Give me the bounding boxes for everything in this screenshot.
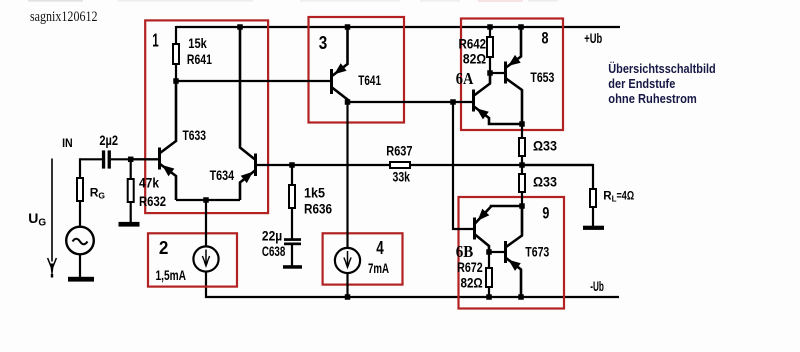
label T641: [358, 72, 381, 88]
label T673: [525, 244, 549, 260]
wire R642 node to T653 base: [490, 72, 504, 74]
label 47k: [139, 175, 159, 191]
label 6A: [456, 69, 474, 88]
node R642 bottom junction: [487, 70, 493, 76]
ground below R632: [119, 222, 140, 227]
node T641 collector junction: [345, 99, 351, 105]
node 6A base tee: [450, 99, 456, 105]
svg-text:RL=4Ω: RL=4Ω: [603, 191, 634, 204]
capacitor 2u2: [102, 150, 111, 168]
resistor O33 upper: [518, 124, 526, 166]
svg-text:3: 3: [319, 32, 328, 53]
label 1,5mA: [156, 267, 187, 283]
current source CS2 1.5mA: [193, 246, 218, 271]
svg-text:2µ2: 2µ2: [99, 132, 118, 148]
red box 8: [461, 19, 563, 131]
svg-text:T634: T634: [210, 167, 235, 183]
wire cap to T633 base: [111, 158, 158, 160]
red box 1: [145, 20, 268, 213]
wire T641 collector to 6A base: [348, 101, 473, 103]
label UG: [28, 210, 46, 229]
label 82ohm lower: [461, 274, 483, 290]
node T641 emitter at rail: [345, 24, 351, 30]
resistor RL: [589, 188, 597, 226]
label R641: [187, 51, 212, 67]
svg-text:Ω33: Ω33: [533, 174, 557, 190]
svg-text:der Endstufe: der Endstufe: [608, 77, 675, 91]
node 6B emitter junction: [519, 203, 525, 209]
resistor R637 33k: [389, 161, 411, 169]
svg-text:IN: IN: [62, 136, 73, 150]
svg-text:R642: R642: [459, 36, 487, 52]
svg-text:R641: R641: [187, 51, 212, 67]
label R642: [459, 36, 487, 52]
arrow UG voltage: [48, 159, 57, 278]
label O33 lower: [533, 174, 557, 190]
current source CS4 7mA: [335, 248, 360, 273]
node R672 at rail: [486, 294, 492, 300]
svg-text:-Ub: -Ub: [590, 278, 604, 294]
label box number 8: [542, 28, 549, 47]
label 82ohm upper: [463, 51, 486, 67]
capacitor C638: [284, 238, 301, 266]
resistor O33 lower: [518, 164, 526, 232]
svg-text:R672: R672: [457, 259, 483, 275]
svg-text:33k: 33k: [393, 169, 411, 185]
label 33k: [393, 169, 411, 185]
label title line 3: [608, 92, 697, 106]
svg-text:6A: 6A: [456, 69, 474, 88]
svg-text:sagnix120612: sagnix120612: [30, 9, 98, 25]
svg-text:UG: UG: [28, 210, 46, 229]
transistor 6A: [472, 73, 522, 124]
label 6B: [456, 242, 474, 261]
wire +Ub rail: [176, 26, 620, 28]
svg-text:Ω33: Ω33: [533, 138, 557, 154]
label sagnix120612: [30, 9, 98, 25]
svg-text:7mA: 7mA: [368, 260, 389, 276]
label 7mA: [368, 260, 389, 276]
svg-text:T633: T633: [183, 127, 207, 143]
ground below source: [68, 277, 94, 282]
label title line 2: [608, 77, 675, 91]
svg-text:2: 2: [159, 237, 169, 258]
svg-text:9: 9: [542, 204, 549, 223]
node T634 collector at rail: [237, 24, 243, 30]
label 15k: [188, 35, 207, 51]
label IN: [62, 136, 73, 150]
label T633: [183, 127, 207, 143]
svg-text:1k5: 1k5: [304, 185, 325, 201]
label RL=4ohm: [603, 191, 634, 204]
resistor R672 82ohm: [485, 252, 493, 297]
svg-text:C638: C638: [262, 243, 286, 259]
svg-text:15k: 15k: [188, 35, 207, 51]
wire R641 to T641 base: [176, 80, 331, 82]
label -Ub: [590, 278, 604, 294]
svg-text:RG: RG: [90, 186, 106, 201]
node emitter junction: [203, 197, 209, 203]
node output junction: [519, 162, 525, 168]
decorative faint top remnants: [28, 0, 558, 2]
node T653 emitter at rail: [518, 24, 524, 30]
label R637: [386, 143, 412, 159]
transistor T634: [240, 26, 257, 200]
svg-text:R637: R637: [386, 143, 412, 159]
label 22u: [262, 228, 282, 244]
label box number 9: [542, 204, 549, 223]
transistor T641: [330, 26, 348, 102]
label O33 upper: [533, 138, 557, 154]
node R636 top: [289, 162, 295, 168]
svg-text:Übersichtsschaltbild: Übersichtsschaltbild: [608, 61, 715, 76]
wire feedback line right: [411, 164, 593, 166]
wire -Ub rail: [206, 272, 619, 297]
wire CS4 to rail: [346, 273, 348, 297]
red box 3: [309, 17, 405, 123]
label R632: [139, 193, 166, 209]
label R672: [457, 259, 483, 275]
svg-text:T673: T673: [525, 244, 549, 260]
node 6B collector junction: [486, 249, 492, 255]
node box8 output junction: [519, 121, 525, 127]
ac source UG: [66, 227, 94, 255]
wire tail to CS2: [205, 200, 207, 247]
wire IN input: [80, 158, 102, 160]
svg-text:1: 1: [152, 29, 159, 50]
transistor T633: [158, 80, 176, 200]
transistor T653: [504, 26, 522, 124]
label box number 4: [376, 237, 384, 258]
svg-text:22µ: 22µ: [262, 228, 282, 244]
resistor RG: [76, 158, 84, 227]
svg-text:4: 4: [376, 237, 384, 258]
svg-text:82Ω: 82Ω: [463, 51, 486, 67]
wire diff pair emitters: [176, 199, 240, 201]
node R642 at rail: [487, 24, 493, 30]
ground below RL: [583, 226, 604, 230]
svg-text:T653: T653: [530, 69, 554, 85]
label box number 3: [319, 32, 328, 53]
wire tee down to 6B base: [453, 102, 473, 229]
resistor R642 82ohm: [486, 26, 494, 73]
label 1k5: [304, 185, 325, 201]
wire feedback line left: [257, 164, 389, 166]
wire T633 base: [131, 158, 158, 160]
svg-text:R636: R636: [304, 201, 332, 217]
svg-text:47k: 47k: [139, 175, 159, 191]
label +Ub: [584, 30, 602, 46]
red box 4: [323, 233, 403, 284]
node CS4 at rail: [345, 294, 351, 300]
wire output to RL: [522, 165, 593, 189]
svg-text:R632: R632: [139, 193, 166, 209]
label 2u2: [99, 132, 118, 148]
wire source to ground: [79, 254, 81, 277]
svg-text:8: 8: [542, 28, 549, 47]
label C638: [262, 243, 286, 259]
resistor R636 1k5: [288, 165, 296, 240]
svg-text:+Ub: +Ub: [584, 30, 602, 46]
resistor R641 15k: [172, 26, 180, 81]
label T653: [530, 69, 554, 85]
wire collector down to CS4: [346, 102, 348, 248]
red box 2: [148, 233, 237, 286]
node input junction: [128, 157, 134, 163]
node T673 emitter at rail: [518, 294, 524, 300]
transistor 6B: [473, 206, 522, 252]
label R636: [304, 201, 332, 217]
ground below C638: [283, 265, 302, 269]
label title line 1: [608, 61, 715, 76]
label T634: [210, 167, 235, 183]
transistor T673: [504, 206, 522, 297]
label box number 2: [159, 237, 169, 258]
svg-text:ohne Ruhestrom: ohne Ruhestrom: [608, 92, 697, 106]
resistor R632: [127, 159, 135, 222]
red box 9: [459, 197, 565, 309]
label RG: [90, 186, 106, 201]
svg-text:1,5mA: 1,5mA: [156, 267, 187, 283]
node R641 bottom junction: [173, 78, 179, 84]
svg-text:82Ω: 82Ω: [461, 274, 483, 290]
label box number 1: [152, 29, 159, 50]
wire 6B collector to T673 base: [489, 251, 504, 253]
svg-text:T641: T641: [358, 72, 381, 88]
